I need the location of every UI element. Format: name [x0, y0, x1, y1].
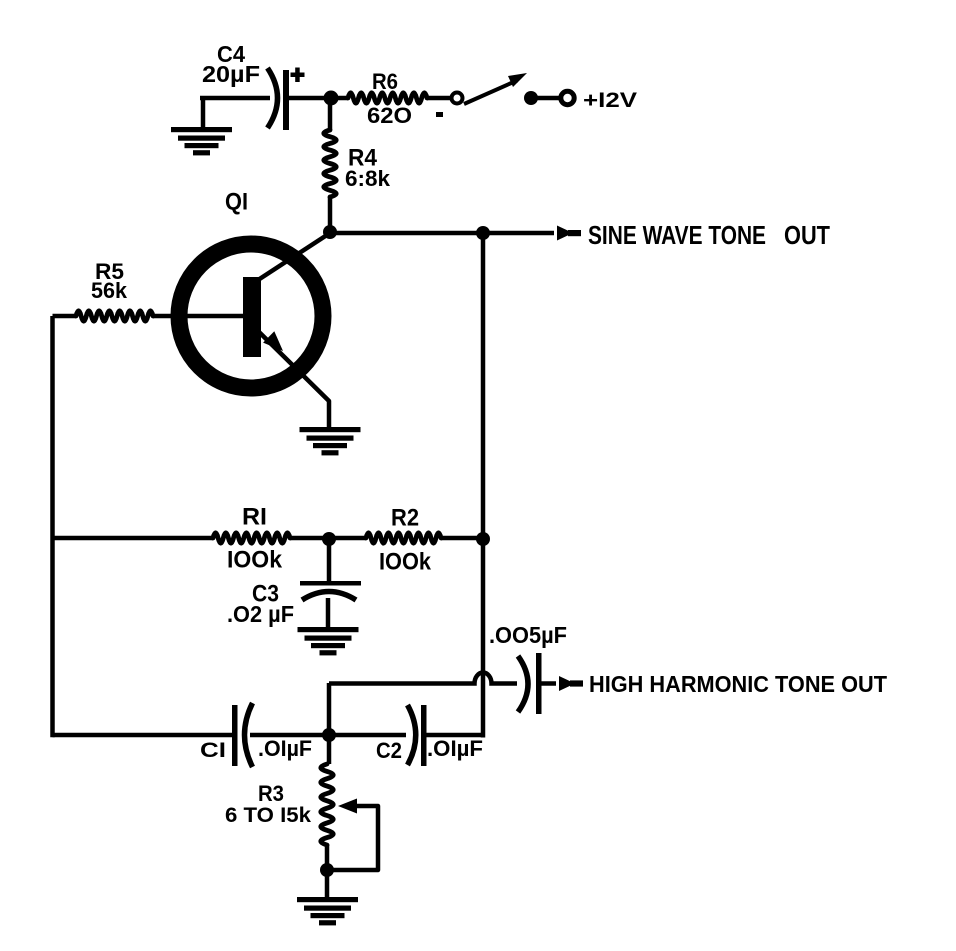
svg-text:.OIµF: .OIµF: [427, 736, 483, 761]
svg-text:RI: RI: [242, 504, 267, 531]
svg-text:HIGH HARMONIC TONE OUT: HIGH HARMONIC TONE OUT: [589, 671, 887, 697]
svg-text:IOOk: IOOk: [379, 549, 432, 576]
svg-text:OUT: OUT: [784, 220, 830, 250]
svg-text:.O2 µF: .O2 µF: [227, 601, 294, 627]
svg-text:.OIµF: .OIµF: [258, 736, 312, 761]
svg-text:CI: CI: [200, 739, 226, 762]
svg-text:IOOk: IOOk: [227, 547, 283, 574]
svg-text:6 TO I5k: 6 TO I5k: [225, 804, 311, 827]
svg-text:6:8k: 6:8k: [345, 166, 391, 191]
svg-text:R6: R6: [372, 69, 398, 94]
svg-text:.OO5µF: .OO5µF: [489, 622, 567, 648]
svg-text:+I2V: +I2V: [583, 89, 637, 112]
svg-text:62O: 62O: [367, 103, 412, 128]
svg-text:SINE WAVE TONE: SINE WAVE TONE: [588, 220, 766, 250]
svg-text:QI: QI: [225, 189, 248, 216]
svg-text:20µF: 20µF: [202, 61, 260, 87]
svg-text:56k: 56k: [91, 278, 128, 303]
svg-text:R3: R3: [258, 781, 284, 806]
svg-text:R2: R2: [391, 505, 419, 532]
svg-text:C2: C2: [376, 738, 402, 763]
